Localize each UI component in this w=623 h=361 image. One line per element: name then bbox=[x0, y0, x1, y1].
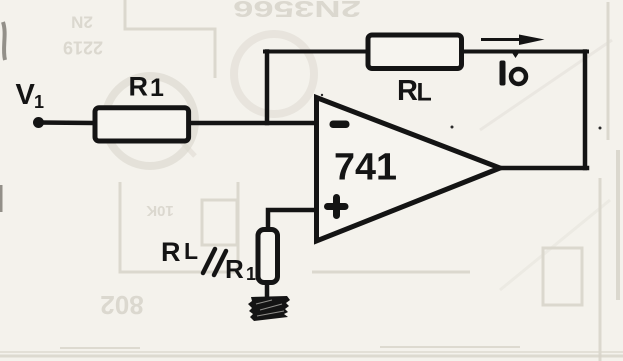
label RL bbox=[397, 75, 432, 107]
ink specks bbox=[321, 94, 602, 130]
resistor RL//R1 bbox=[258, 230, 278, 283]
wire V1 to R1 bbox=[40, 120, 92, 125]
label RL//R1 bbox=[161, 237, 256, 284]
svg-text:L: L bbox=[417, 79, 432, 107]
svg-text:802: 802 bbox=[100, 290, 143, 320]
ground hatch texture bbox=[256, 300, 284, 316]
svg-text:V: V bbox=[16, 79, 36, 111]
main ink bbox=[33, 35, 587, 297]
label RL//R1 parallel slashes bbox=[203, 249, 226, 275]
svg-text:1: 1 bbox=[246, 264, 256, 284]
bleed circle left bbox=[105, 76, 195, 166]
bleed lines right bbox=[599, 178, 602, 361]
op-amp plus sign bbox=[328, 198, 346, 216]
svg-text:10K: 10K bbox=[146, 202, 174, 219]
wire RL to right corner bbox=[461, 50, 587, 54]
svg-text:L: L bbox=[184, 238, 198, 264]
wire resistor to ground bbox=[265, 284, 270, 297]
svg-text:R: R bbox=[397, 75, 418, 107]
scanner edge marks bbox=[1, 22, 5, 212]
svg-text:R: R bbox=[161, 237, 181, 267]
bleed box lower-left bbox=[120, 182, 238, 272]
wire non-inverting input bbox=[268, 210, 316, 231]
bleed wire top-left bbox=[125, 0, 215, 78]
node V1 terminal bbox=[33, 117, 44, 128]
ground bbox=[248, 296, 290, 321]
svg-text:1: 1 bbox=[150, 74, 164, 102]
svg-text:1: 1 bbox=[34, 92, 44, 112]
op-amp minus sign bbox=[330, 121, 350, 129]
svg-text:741: 741 bbox=[334, 147, 397, 189]
wire right vertical bbox=[583, 52, 588, 169]
bleed box 10K bbox=[202, 200, 237, 245]
bleed line bottom bbox=[0, 351, 623, 353]
op-amp U1 741 triangle bbox=[317, 98, 501, 242]
wire output bbox=[499, 166, 587, 171]
label V1 bbox=[16, 79, 45, 112]
wire top to RL bbox=[265, 50, 368, 54]
bleed-through group (faint reverse-side print) bbox=[63, 0, 361, 320]
svg-text:2N: 2N bbox=[71, 13, 93, 32]
resistor RL bbox=[368, 35, 462, 69]
label Io bbox=[500, 61, 527, 86]
arrow Io bbox=[481, 35, 545, 59]
bleed line mid bbox=[312, 271, 470, 274]
wire R1 to inverting input bbox=[191, 121, 317, 126]
svg-text:R: R bbox=[129, 72, 149, 102]
bottom scan smudge bbox=[0, 347, 623, 356]
svg-text:2N3566: 2N3566 bbox=[233, 0, 361, 22]
bleed circle middle bbox=[234, 34, 314, 114]
junction tick under wire bbox=[513, 54, 519, 59]
svg-text:R: R bbox=[225, 254, 244, 284]
svg-text:2219: 2219 bbox=[63, 37, 103, 57]
resistor R1 bbox=[95, 108, 189, 141]
label R1 bbox=[129, 72, 165, 103]
wire feedback vertical bbox=[265, 52, 270, 124]
